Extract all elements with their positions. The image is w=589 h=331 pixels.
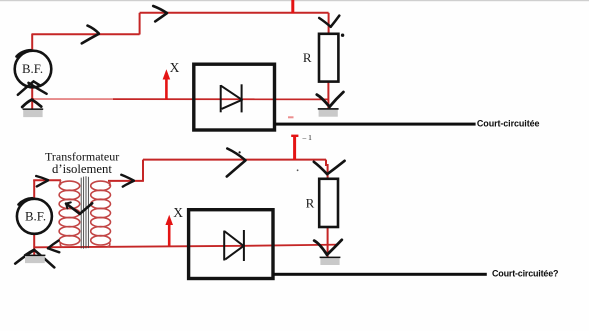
ground G1 — [23, 109, 42, 118]
wire W12 secondary top to step — [108, 180, 144, 182]
arrow A2 on wire W4 — [153, 6, 167, 13]
ground G3 — [25, 255, 45, 263]
diode D1 triangle — [221, 86, 242, 109]
generator BF1 hand arc — [17, 50, 32, 56]
arrow cluster at ground G3 — [15, 250, 54, 267]
wire W7 bottom rail of top circuit — [32, 98, 328, 100]
black output line L2 — [273, 273, 487, 276]
arrow A4 on wire W11 — [36, 176, 48, 180]
svg-text:Court-circuitée?: Court-circuitée? — [492, 268, 558, 278]
ground G2 — [319, 108, 338, 116]
wire W14 top rail of bottom circuit — [143, 159, 326, 161]
arrow A6 on wire W14 — [227, 149, 245, 161]
diode D1 anode bar — [220, 85, 222, 112]
wire W16 resistor R2 bottom to ground — [327, 227, 329, 258]
wire W13 vertical step — [142, 160, 144, 181]
ground G1 chevron — [22, 100, 41, 107]
svg-text:X: X — [170, 60, 180, 75]
wire W7 light overlay segment — [34, 98, 113, 100]
red dash node mark — [288, 116, 294, 118]
wire W5 vertical into resistor R1 — [328, 13, 330, 35]
dot mark — [297, 169, 299, 171]
arrow A5 on wire W12 — [121, 175, 134, 181]
generator BF2 hand arc — [19, 198, 33, 204]
wire W2 horizontal from BF1 top — [32, 33, 140, 35]
resistor R1 dot — [341, 34, 344, 37]
generator BF1 — [15, 51, 52, 88]
diode D1 cathode bar — [241, 84, 243, 112]
node X1 red arrow — [165, 73, 168, 100]
ground G4 — [320, 257, 339, 265]
wire W4 top horizontal — [140, 12, 329, 14]
node tick I1 red — [291, 0, 294, 14]
arrow A8 on transformer T1 — [66, 204, 80, 214]
svg-text:R: R — [306, 195, 315, 210]
svg-text:X: X — [173, 205, 183, 220]
transformer T1 primary coil — [59, 181, 80, 245]
transformer T1 secondary coil — [91, 181, 111, 245]
svg-text:R: R — [303, 50, 312, 65]
generator BF2 — [17, 199, 52, 234]
wire W3 vertical step — [139, 13, 141, 35]
diode D2 cathode bar — [243, 230, 245, 261]
wire W10 BF2 top vertical — [33, 180, 35, 200]
transformer T1 core — [81, 176, 88, 249]
node X2 red arrow — [168, 219, 171, 246]
wire W17 bottom rail of bottom circuit — [34, 245, 338, 248]
svg-text:Court-circuitée: Court-circuitée — [477, 118, 540, 128]
top border line — [0, 0, 589, 1]
wire W15 into resistor R2 — [326, 160, 328, 179]
diode D2 triangle — [224, 231, 243, 259]
svg-text:d’isolement: d’isolement — [52, 162, 112, 176]
resistor R1 — [319, 34, 338, 82]
arrow A7 above resistor R2 — [314, 162, 327, 174]
arrow cluster at ground G2 — [317, 95, 330, 107]
arrow A3 above resistor R1 — [319, 18, 331, 27]
arrow cluster at ground G4 — [314, 241, 327, 255]
wire W6 resistor R1 bottom to ground — [327, 82, 329, 110]
wire W1 vertical from BF1 top — [31, 34, 33, 52]
resistor R2 — [319, 179, 338, 227]
black output line L1 — [274, 123, 475, 126]
wire W8 BF1 bottom to ground — [31, 87, 33, 109]
svg-text:B.F.: B.F. — [25, 209, 46, 223]
arrow cluster at ground G1 (BF1 bottom) — [18, 81, 40, 94]
arrow A1 on wire W2 — [88, 26, 99, 34]
svg-text:B.F.: B.F. — [22, 62, 43, 76]
svg-text:– 1: – 1 — [302, 133, 313, 142]
wire W18 BF2 bottom to ground — [33, 233, 35, 256]
transformer T1 secondary end connects — [108, 181, 111, 186]
node mark I2 red T — [293, 136, 296, 160]
diode box U1 — [194, 64, 275, 130]
wire W11 BF2 top to primary — [33, 179, 61, 181]
transformer T1 primary end connects — [59, 180, 62, 185]
diode D2 anode bar — [223, 231, 225, 261]
diode box U2 — [189, 210, 273, 279]
